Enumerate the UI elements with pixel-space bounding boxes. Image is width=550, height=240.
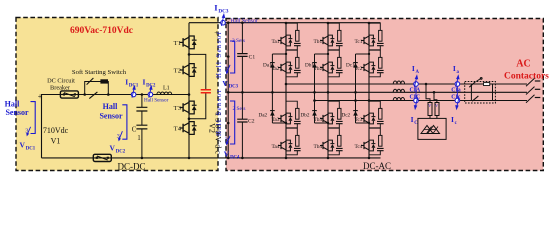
- svg-text:DC1: DC1: [26, 146, 36, 151]
- phase line A: [286, 83, 527, 85]
- svg-text:I: I: [453, 64, 456, 73]
- DC link capacitor V2 branch: [189, 54, 206, 118]
- svg-text:L1: L1: [163, 86, 170, 92]
- clamp diode spur A: [272, 54, 286, 123]
- clamp diode Dc2: [353, 111, 358, 116]
- capacitor bank C1 (input side, two in series): [141, 95, 143, 158]
- svg-text:DC2: DC2: [146, 83, 156, 88]
- svg-text:DC4: DC4: [230, 155, 240, 160]
- contactor internal vertical right: [492, 84, 494, 101]
- svg-text:DC Circuit: DC Circuit: [47, 77, 75, 84]
- svg-text:DC-DC: DC-DC: [117, 161, 145, 171]
- svg-text:V: V: [428, 103, 431, 108]
- DC circuit breaker (bottom bus): [93, 154, 111, 161]
- capacitor V2 plates (red): [201, 90, 211, 93]
- svg-text:I: I: [143, 77, 146, 86]
- junction nodes soft start: [83, 93, 86, 96]
- output break slash line B: [526, 87, 535, 95]
- svg-text:Sensor: Sensor: [5, 108, 29, 117]
- svg-text:Db2: Db2: [301, 113, 310, 119]
- svg-text:CIC: CIC: [410, 94, 421, 100]
- voltage sensor bracket VDC1: [31, 102, 36, 134]
- svg-text:CIa: CIa: [451, 88, 460, 94]
- svg-text:DC-AC: DC-AC: [363, 161, 391, 171]
- svg-text:AC: AC: [516, 58, 530, 69]
- capacitor C1 (upper DC link cap, vertical): [241, 23, 243, 93]
- wire Ta4 to bottom bus: [285, 155, 287, 158]
- svg-text:Sensor: Sensor: [99, 111, 123, 120]
- soft start resistor: [100, 79, 108, 83]
- svg-text:V: V: [222, 79, 228, 88]
- svg-text:Ta4: Ta4: [272, 144, 280, 150]
- svg-text:CIc: CIc: [451, 94, 460, 100]
- svg-text:Breaker: Breaker: [50, 84, 71, 91]
- svg-text:T1: T1: [174, 40, 181, 47]
- wire Tc2 emitter to phase C: [368, 77, 370, 101]
- IGBT Tc2: [361, 50, 384, 77]
- wire phase A down to Ta3: [285, 84, 287, 101]
- svg-text:690Vac-710Vdc: 690Vac-710Vdc: [70, 26, 133, 36]
- DC link left rail (inverter input): [227, 23, 229, 158]
- svg-text:T2: T2: [174, 68, 181, 75]
- IGBT Ta3: [278, 101, 301, 128]
- svg-text:710Vdc: 710Vdc: [43, 126, 69, 135]
- svg-text:Tb1: Tb1: [314, 39, 323, 45]
- DC-DC converter region (yellow dashed box): [16, 18, 218, 171]
- wire Tb2 emitter to phase B: [327, 77, 329, 92]
- svg-text:DC3: DC3: [218, 9, 228, 15]
- svg-text:Tc4: Tc4: [355, 144, 363, 150]
- damping resistor box: [418, 118, 446, 139]
- filter capacitor element 2: [435, 103, 439, 116]
- IGBT Tb2: [320, 50, 343, 77]
- filter capacitor tap A: [425, 83, 428, 86]
- filter inductor phase A: [393, 81, 404, 84]
- contactor actuator mark: [476, 78, 482, 82]
- current sensor IDC1: [131, 92, 136, 97]
- IGBT Tb4: [320, 128, 343, 155]
- filter capacitor tap B: [433, 91, 436, 94]
- DC link top rail: [189, 22, 381, 24]
- svg-text:V: V: [20, 141, 26, 150]
- IGBT Ta1: [278, 23, 301, 50]
- wire Tb4 to bottom bus: [327, 155, 329, 158]
- clamp diode spur C: [356, 54, 370, 123]
- svg-text:I: I: [125, 77, 128, 86]
- svg-text:A: A: [416, 70, 420, 75]
- voltage sensor bracket VDC4: [230, 101, 235, 144]
- wire: bottom negative bus: [42, 157, 381, 159]
- wire Tc4 to bottom bus: [368, 155, 370, 158]
- clamp diode Da2: [270, 111, 275, 116]
- current sensor IC: [414, 98, 419, 103]
- svg-text:T4: T4: [174, 126, 182, 133]
- transistor T1: [180, 36, 197, 49]
- output break slash line C: [526, 95, 535, 103]
- IGBT Ta2: [278, 50, 301, 77]
- svg-text:1: 1: [137, 134, 141, 142]
- svg-text:T3: T3: [174, 105, 182, 112]
- IGBT Tc1: [361, 23, 384, 50]
- filter capacitor element 1: [428, 103, 432, 116]
- svg-text:DC1: DC1: [129, 83, 139, 88]
- current sensor IDC3 (DC link): [221, 20, 226, 25]
- svg-text:V: V: [435, 103, 438, 108]
- boost leg vertical line: [188, 23, 190, 158]
- svg-text:Ta1: Ta1: [272, 39, 280, 45]
- IGBT Tc4: [361, 128, 384, 155]
- IGBT Ta4: [278, 128, 301, 155]
- svg-text:I: I: [412, 64, 415, 73]
- filter inductor phase C: [393, 98, 404, 101]
- DC-AC inverter region (pink dashed box): [226, 19, 543, 171]
- transistor T4: [180, 122, 197, 135]
- AC contactor box: [465, 82, 496, 104]
- IGBT Tb3: [320, 101, 343, 128]
- svg-text:Hall Sensor: Hall Sensor: [144, 97, 169, 103]
- output break slash line A: [526, 78, 535, 86]
- wire Ta2 emitter to phase A: [285, 77, 287, 84]
- phase line C: [315, 100, 528, 102]
- contactor blade line C: [472, 96, 478, 101]
- clamp diode Db2: [312, 111, 317, 116]
- junction dots bottom bus: [141, 157, 144, 160]
- current sensor IDC2: [148, 92, 153, 97]
- svg-text:Da2: Da2: [259, 113, 268, 119]
- clamp diode Db1: [312, 63, 317, 68]
- svg-text:Tc1: Tc1: [355, 39, 363, 45]
- svg-text:Contactors: Contactors: [504, 72, 549, 82]
- svg-text:Hall Sensor: Hall Sensor: [216, 31, 223, 78]
- svg-text:DC2: DC2: [116, 149, 126, 154]
- wire phase B down to Tb3: [327, 92, 329, 101]
- current sensor Ic: [455, 98, 460, 103]
- svg-text:V1: V1: [51, 137, 61, 146]
- svg-text:Hall: Hall: [103, 102, 118, 111]
- phase line B / neutral: [228, 91, 527, 93]
- current sensor IA: [415, 84, 417, 101]
- svg-text:Soft Starting Switch: Soft Starting Switch: [72, 69, 127, 76]
- voltage sensor bracket VDC2: [122, 105, 127, 139]
- svg-text:Da1: Da1: [263, 63, 272, 69]
- transistor T3: [180, 101, 197, 114]
- soft starting switch bypass branch: [85, 82, 109, 95]
- svg-text:I: I: [451, 115, 454, 124]
- contactor internal vertical left: [470, 84, 472, 101]
- svg-text:+: +: [38, 92, 43, 101]
- contactor blade line A: [469, 82, 475, 88]
- svg-text:C1: C1: [249, 55, 256, 61]
- clamp diode Da1: [270, 63, 275, 68]
- svg-text:CIA: CIA: [410, 88, 421, 94]
- svg-text:DC3: DC3: [229, 85, 239, 90]
- svg-text:Hall Sensor: Hall Sensor: [231, 19, 258, 25]
- svg-text:V: V: [110, 144, 116, 153]
- current sensor Ia: [456, 84, 458, 101]
- wire phase C down to Tc3: [368, 100, 370, 103]
- wire: input positive rail V1: [42, 95, 190, 158]
- pre-charge resistor: [484, 83, 490, 86]
- capacitor C2 (lower DC link cap, vertical): [241, 92, 243, 158]
- svg-text:Db1: Db1: [305, 63, 314, 69]
- IGBT Tc3: [361, 101, 384, 128]
- transistor T2: [180, 64, 197, 77]
- clamp diode Dc1: [353, 63, 358, 68]
- clamp diode spur B: [315, 54, 329, 123]
- svg-text:C: C: [132, 126, 137, 134]
- voltage sensor bracket VDC3: [230, 41, 235, 73]
- IGBT Tb1: [320, 23, 343, 50]
- svg-text:Tb4: Tb4: [314, 144, 323, 150]
- svg-text:Dc2: Dc2: [342, 113, 351, 119]
- svg-text:C2: C2: [248, 119, 255, 125]
- DC circuit breaker (top): [60, 91, 78, 98]
- switch blade (bypass): [87, 78, 94, 85]
- switch blade (main line): [89, 92, 97, 99]
- svg-text:Hall Sensor: Hall Sensor: [216, 89, 223, 136]
- svg-text:Dc1: Dc1: [346, 63, 355, 69]
- filter inductor phase B: [393, 89, 404, 92]
- svg-text:I: I: [411, 115, 414, 124]
